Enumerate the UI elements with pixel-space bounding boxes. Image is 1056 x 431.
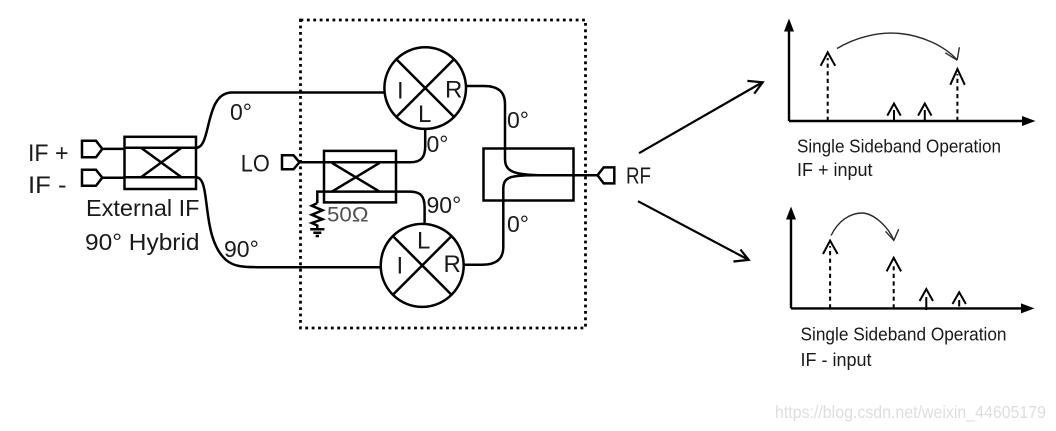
svg-text:0°: 0°	[427, 131, 449, 157]
svg-text:0°: 0°	[507, 107, 529, 133]
svg-text:IF -: IF -	[28, 172, 67, 199]
svg-text:RF: RF	[626, 163, 651, 189]
svg-text:I: I	[397, 78, 404, 105]
svg-text:Single Sideband Operation: Single Sideband Operation	[801, 325, 1007, 345]
svg-text:IF - input: IF - input	[801, 350, 872, 370]
svg-text:90°: 90°	[224, 236, 259, 262]
svg-text:0°: 0°	[230, 99, 252, 125]
svg-text:90° Hybrid: 90° Hybrid	[85, 229, 200, 255]
svg-text:IF +: IF +	[28, 140, 69, 167]
svg-text:L: L	[418, 101, 431, 128]
svg-text:R: R	[444, 251, 461, 278]
svg-text:IF + input: IF + input	[797, 160, 873, 180]
svg-text:0°: 0°	[507, 211, 529, 237]
svg-text:Single Sideband Operation: Single Sideband Operation	[797, 137, 1001, 157]
svg-text:90°: 90°	[427, 192, 462, 218]
svg-text:I: I	[397, 253, 404, 280]
svg-text:L: L	[417, 228, 430, 255]
svg-text:LO: LO	[241, 150, 270, 177]
svg-text:R: R	[445, 77, 462, 104]
svg-text:50Ω: 50Ω	[327, 204, 369, 227]
svg-text:External IF: External IF	[86, 195, 200, 221]
svg-text:https://blog.csdn.net/weixin_4: https://blog.csdn.net/weixin_44605179	[775, 402, 1046, 423]
